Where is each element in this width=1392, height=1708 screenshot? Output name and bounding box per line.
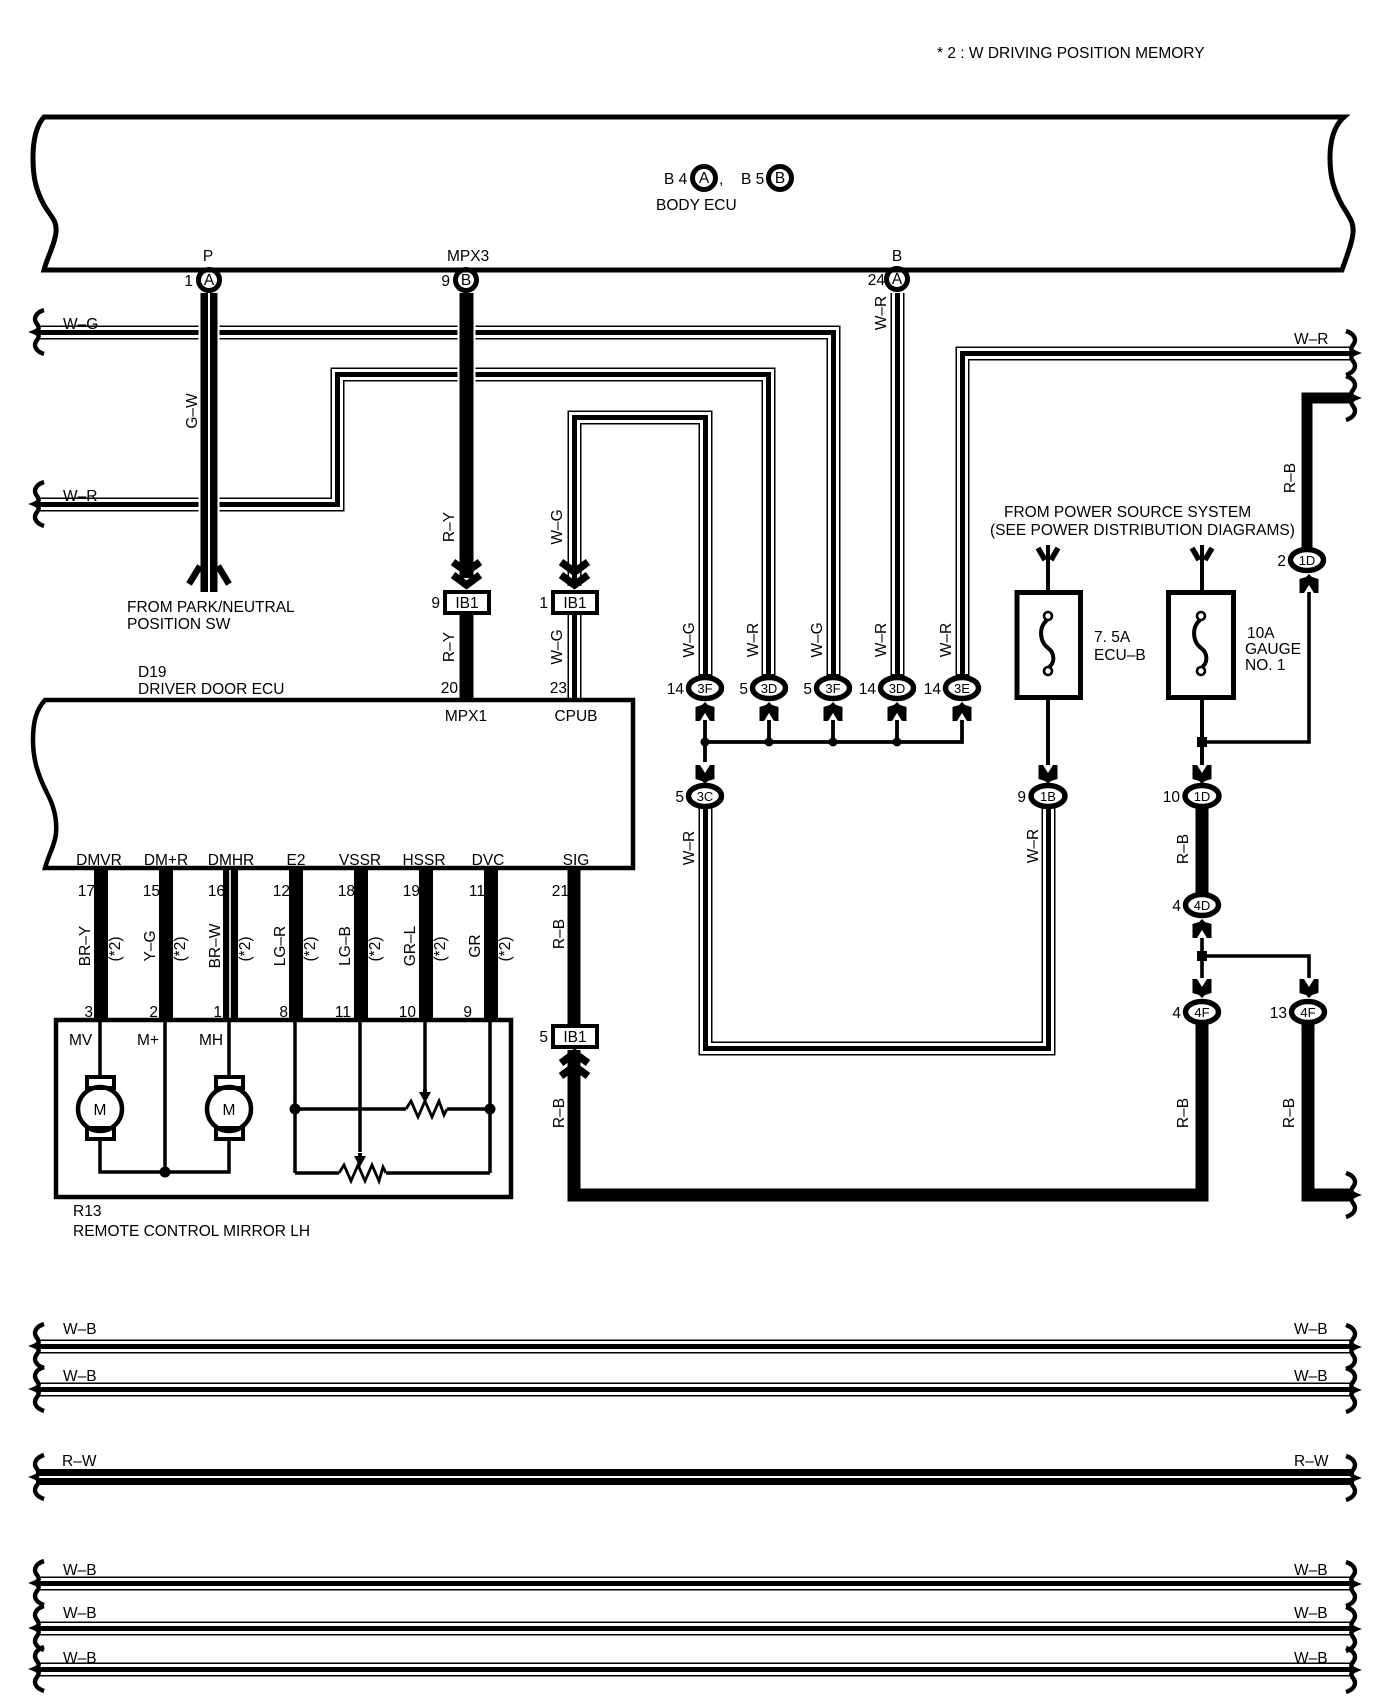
svg-text:3D: 3D: [761, 681, 778, 696]
svg-text:W–G: W–G: [549, 509, 566, 544]
arrow up into 3F(14): [696, 702, 715, 721]
wire W-B ground 2: [36, 1383, 1354, 1397]
svg-text:R–B: R–B: [1282, 463, 1299, 493]
svg-text:10: 10: [1163, 789, 1181, 806]
svg-text:DMHR: DMHR: [208, 852, 255, 869]
svg-text:IB1: IB1: [563, 1029, 586, 1046]
wire mirror pin1 to motor MH: [227, 1022, 231, 1079]
torn-edge brace W-R right: [1346, 331, 1356, 375]
svg-text:1D: 1D: [1194, 789, 1211, 804]
svg-text:3E: 3E: [954, 681, 970, 696]
svg-text:3F: 3F: [825, 681, 840, 696]
svg-text:R–W: R–W: [62, 1453, 97, 1470]
svg-text:W–B: W–B: [1294, 1605, 1328, 1622]
svg-text:1: 1: [184, 273, 193, 290]
svg-text:HSSR: HSSR: [402, 852, 445, 869]
wire R-Y from IB1 to driver door ECU pin 20: [460, 615, 474, 700]
wire R-Y MPX3 from connector B(9) to junction IB1: [458, 293, 476, 578]
svg-text:(*2): (*2): [302, 937, 319, 962]
connector 14 (3E): [946, 678, 979, 699]
potentiometer bottom zigzag: [339, 1165, 386, 1181]
svg-text:W–G: W–G: [549, 629, 566, 664]
wire W-R from left edge up and over to connector 3D(5): [36, 375, 769, 677]
junction dot: [160, 1167, 171, 1178]
svg-text:B 4: B 4: [664, 171, 688, 188]
svg-text:W–R: W–R: [938, 623, 955, 657]
torn-edge brace R-B right: [1346, 376, 1356, 420]
svg-text:,: ,: [719, 171, 723, 188]
svg-text:GR–L: GR–L: [402, 925, 419, 966]
svg-text:W–B: W–B: [1294, 1650, 1328, 1667]
svg-text:W–R: W–R: [873, 623, 890, 657]
svg-text:17: 17: [78, 883, 95, 900]
wire R-B pin21 (SIG) to IB1 pin5: [568, 870, 581, 1024]
svg-text:B 5: B 5: [741, 171, 764, 188]
arrow up into 3D(5): [760, 702, 779, 721]
svg-text:14: 14: [924, 681, 942, 698]
svg-text:Y–G: Y–G: [142, 930, 159, 961]
wire motor MV to common: [100, 1139, 229, 1172]
svg-text:REMOTE CONTROL MIRROR LH: REMOTE CONTROL MIRROR LH: [73, 1223, 310, 1240]
wire mirror pin11 wiper: [358, 1022, 362, 1152]
svg-text:7. 5A: 7. 5A: [1094, 629, 1131, 646]
torn-edge brace R-B bottom right: [1346, 1173, 1356, 1217]
svg-text:5: 5: [739, 681, 748, 698]
svg-text:(SEE POWER DISTRIBUTION DIAGRA: (SEE POWER DISTRIBUTION DIAGRAMS): [990, 522, 1295, 539]
svg-text:NO. 1: NO. 1: [1245, 657, 1285, 674]
svg-text:IB1: IB1: [563, 595, 586, 612]
svg-text:G–W: G–W: [184, 393, 201, 429]
svg-text:(*2): (*2): [432, 937, 449, 962]
svg-text:DRIVER DOOR ECU: DRIVER DOOR ECU: [138, 681, 284, 698]
wire LG-B pin18 to mirror pin11: [354, 870, 368, 1022]
arrow down into 4F(4): [1193, 979, 1212, 998]
svg-text:W–R: W–R: [1294, 331, 1328, 348]
svg-text:W–G: W–G: [681, 622, 698, 657]
connector 4 (4D): [1186, 895, 1219, 916]
connector 1 (A) on body ECU pin P: [199, 270, 220, 291]
svg-text:14: 14: [667, 681, 685, 698]
svg-text:(*2): (*2): [237, 937, 254, 962]
wire W-R from right edge to connector 3E(14): [963, 354, 1353, 677]
svg-text:W–B: W–B: [63, 1562, 97, 1579]
svg-text:W–R: W–R: [873, 296, 890, 330]
svg-text:9: 9: [441, 273, 450, 290]
wire from 4D down with branch to both 4F connectors: [1202, 938, 1309, 978]
connector 14 (3D): [881, 678, 914, 699]
connector 5 (3D): [753, 678, 786, 699]
junction dot: [1197, 737, 1207, 747]
svg-text:5: 5: [803, 681, 812, 698]
svg-text:MV: MV: [69, 1032, 93, 1049]
arrow down into 1B(9): [1039, 765, 1058, 784]
svg-text:MH: MH: [199, 1032, 223, 1049]
wire R-W: [36, 1469, 1354, 1485]
connector 2 (1D): [1291, 550, 1324, 571]
svg-text:4F: 4F: [1194, 1005, 1209, 1020]
svg-text:LG–B: LG–B: [337, 926, 354, 966]
junction dot: [485, 1104, 496, 1115]
svg-text:19: 19: [403, 883, 420, 900]
connector 9 (B) on body ECU pin MPX3: [456, 270, 477, 291]
svg-text:W–R: W–R: [63, 488, 97, 505]
connector 13 (4F): [1292, 1002, 1325, 1023]
svg-text:(*2): (*2): [107, 937, 124, 962]
svg-text:W–B: W–B: [1294, 1562, 1328, 1579]
svg-text:M+: M+: [137, 1032, 159, 1049]
connector 5 (3F): [817, 678, 850, 699]
svg-text:LG–R: LG–R: [272, 926, 289, 967]
fuse 10A GAUGE NO.1: [1169, 593, 1234, 698]
svg-text:W–R: W–R: [681, 831, 698, 865]
svg-text:14: 14: [859, 681, 877, 698]
feed stub arrow into fuse ECU-B: [1046, 545, 1050, 590]
arrow up into 3E(14): [953, 702, 972, 721]
wire R-B from right edge down to connector 1D(2): [1307, 398, 1352, 549]
arrow up into 3F(5): [824, 702, 843, 721]
wire mirror pin3 to motor MV: [98, 1022, 102, 1079]
svg-text:BR–Y: BR–Y: [77, 926, 94, 967]
svg-text:IB1: IB1: [455, 595, 478, 612]
svg-text:18: 18: [338, 883, 355, 900]
svg-text:23: 23: [550, 680, 567, 697]
fuse 7.5A ECU-B: [1017, 593, 1081, 698]
arrow up into 1D(2): [1300, 574, 1319, 593]
wire GR pin11 to mirror pin9: [484, 870, 498, 1022]
svg-text:W–R: W–R: [1025, 829, 1042, 863]
wire R-B from 4F(4) down, across to IB1(5): [574, 1024, 1202, 1195]
wire R-B from 4F(13) down to right edge: [1308, 1024, 1352, 1195]
svg-text:W–R: W–R: [745, 623, 762, 657]
svg-text:A: A: [892, 271, 903, 288]
svg-text:R–W: R–W: [1294, 1453, 1329, 1470]
torn-edge brace W-G left: [34, 310, 44, 354]
svg-text:1B: 1B: [1040, 789, 1056, 804]
junction dot: [829, 738, 838, 747]
connector B5 (B): [769, 167, 792, 190]
svg-text:R–Y: R–Y: [441, 632, 458, 662]
arrow down onto top potentiometer: [419, 1089, 431, 1103]
svg-text:MPX3: MPX3: [447, 248, 489, 265]
svg-text:24: 24: [868, 272, 886, 289]
wire W-G from left edge to connector 3F(5): [36, 333, 834, 677]
junction block IB1 pin 9: [445, 592, 489, 613]
arrow down onto bottom potentiometer: [354, 1153, 366, 1167]
junction dot: [893, 738, 902, 747]
svg-text:3F: 3F: [697, 681, 712, 696]
svg-text:(*2): (*2): [367, 937, 384, 962]
arrow up into 3D(14): [888, 702, 907, 721]
junction block IB1 pin 1: [553, 592, 597, 613]
wire mirror pin10 wiper: [423, 1022, 427, 1089]
connector 4 (4F): [1186, 1002, 1219, 1023]
junction dot: [701, 738, 710, 747]
torn-edge brace W-R left: [34, 482, 44, 526]
wire W-B ground 1: [36, 1340, 1354, 1354]
svg-text:W–B: W–B: [63, 1650, 97, 1667]
potentiometer top zigzag: [406, 1101, 447, 1117]
svg-text:R–B: R–B: [551, 919, 568, 949]
arrow (double chevron) into IB1 pin 9: [453, 562, 480, 572]
junction dot: [290, 1104, 301, 1115]
wire Y-G pin15 to mirror pin2: [159, 870, 173, 1022]
svg-text:1: 1: [539, 595, 548, 612]
svg-text:BR–W: BR–W: [207, 923, 224, 968]
svg-text:4D: 4D: [1194, 898, 1211, 913]
svg-text:R–B: R–B: [551, 1098, 568, 1128]
wire mirror pin8 left side of sensor: [293, 1022, 297, 1173]
wire LG-R pin12 to mirror pin8: [289, 870, 303, 1022]
svg-text:DMVR: DMVR: [76, 852, 122, 869]
svg-text:GR: GR: [467, 934, 484, 957]
svg-text:POSITION SW: POSITION SW: [127, 616, 231, 633]
wire R-B from 1D(10) to 4D(4): [1196, 808, 1209, 893]
svg-text:9: 9: [1017, 789, 1026, 806]
svg-text:VSSR: VSSR: [339, 852, 381, 869]
svg-text:MPX1: MPX1: [445, 708, 487, 725]
svg-text:12: 12: [273, 883, 290, 900]
svg-text:B: B: [775, 170, 785, 187]
wire G-W from connector A(1) down to park/neutral position sw: [199, 293, 220, 587]
sensor bottom line with potentiometer: [295, 1171, 490, 1175]
svg-text:BODY ECU: BODY ECU: [656, 197, 737, 214]
svg-text:1D: 1D: [1299, 553, 1316, 568]
wire W-B ground 5: [36, 1663, 1354, 1677]
ECU D19: DRIVER DOOR ECU box (torn left edge): [33, 700, 633, 868]
arrow (double chevron) into IB1 pin 1: [561, 562, 588, 572]
wire BR-Y pin17 to mirror pin3: [94, 870, 108, 1022]
svg-text:CPUB: CPUB: [554, 708, 597, 725]
svg-text:D19: D19: [138, 664, 166, 681]
ECU B: BODY ECU box (partial, torn edges): [33, 117, 1353, 270]
wire W-R from connector A(24) down to 3D(14): [891, 293, 905, 676]
svg-text:R13: R13: [73, 1203, 101, 1220]
arrow (double chevron) up into IB1 pin 5: [561, 1053, 588, 1063]
feed stub arrow into fuse GAUGE: [1200, 545, 1204, 590]
svg-text:DM+R: DM+R: [144, 852, 188, 869]
svg-text:M: M: [223, 1102, 236, 1119]
svg-text:B: B: [461, 272, 471, 289]
sensor top line with potentiometer: [295, 1107, 490, 1111]
wire GR-L pin19 to mirror pin10: [419, 870, 433, 1022]
svg-text:B: B: [892, 248, 902, 265]
svg-text:5: 5: [675, 789, 684, 806]
svg-text:R–B: R–B: [1175, 834, 1192, 864]
junction block IB1 pin 5: [553, 1026, 597, 1047]
svg-text:A: A: [204, 272, 215, 289]
connector 9 (1B): [1031, 786, 1065, 807]
svg-text:W–B: W–B: [1294, 1368, 1328, 1385]
arrow down into 1D(10): [1193, 765, 1212, 784]
svg-text:A: A: [699, 170, 710, 187]
svg-text:DVC: DVC: [472, 852, 505, 869]
svg-text:M: M: [94, 1102, 107, 1119]
svg-text:FROM PARK/NEUTRAL: FROM PARK/NEUTRAL: [127, 599, 295, 616]
svg-text:* 2 : W DRIVING POSITION MEMOR: * 2 : W DRIVING POSITION MEMORY: [937, 45, 1205, 62]
svg-text:4: 4: [1172, 1005, 1181, 1022]
svg-text:(*2): (*2): [172, 937, 189, 962]
svg-text:E2: E2: [287, 852, 306, 869]
connector 5 (3C): [689, 786, 722, 807]
arrow down into 3C(5): [696, 765, 715, 784]
wire from fuse ECU-B to 1B(9): [1046, 700, 1050, 765]
wire W-R U-loop from 3C(5) to 1B(9): [706, 808, 1049, 1049]
svg-text:ECU–B: ECU–B: [1094, 647, 1146, 664]
bus line joining 3F/3D/3F/3D/3E connectors: [705, 720, 962, 762]
svg-text:21: 21: [552, 883, 569, 900]
svg-text:P: P: [203, 248, 213, 265]
component R13: REMOTE CONTROL MIRROR LH box: [56, 1020, 511, 1197]
svg-text:3C: 3C: [697, 789, 714, 804]
svg-text:W–B: W–B: [63, 1368, 97, 1385]
svg-text:GAUGE: GAUGE: [1245, 641, 1301, 658]
svg-text:R–B: R–B: [1281, 1098, 1298, 1128]
wire W-G from IB1 to driver door ECU pin 23 (CPUB): [568, 615, 582, 700]
svg-text:W–B: W–B: [63, 1605, 97, 1622]
junction dot: [765, 738, 774, 747]
svg-text:2: 2: [1277, 553, 1286, 570]
svg-text:W–G: W–G: [809, 622, 826, 657]
svg-text:R–B: R–B: [1175, 1098, 1192, 1128]
connector 14 (3F): [689, 678, 722, 699]
connector 10 (1D): [1185, 786, 1219, 807]
svg-text:9: 9: [431, 595, 440, 612]
arrow down into 4F(13): [1300, 979, 1319, 998]
wire BR-W pin16 to mirror pin1: [223, 870, 238, 1022]
svg-text:16: 16: [208, 883, 225, 900]
svg-text:FROM POWER SOURCE SYSTEM: FROM POWER SOURCE SYSTEM: [1004, 504, 1251, 521]
connector 24 (A) on body ECU pin B: [887, 269, 908, 290]
svg-text:20: 20: [441, 680, 459, 697]
wire from fuse GAUGE down to 1D(10) with branch to 1D(2): [1200, 700, 1204, 765]
svg-text:11: 11: [469, 883, 485, 900]
wire W-B ground 3: [36, 1577, 1354, 1591]
svg-text:4F: 4F: [1300, 1005, 1315, 1020]
arrow barbs on G-W wire end: [189, 566, 200, 584]
motor MV: [78, 1087, 122, 1131]
svg-text:10A: 10A: [1247, 625, 1275, 642]
svg-text:W–B: W–B: [1294, 1321, 1328, 1338]
svg-text:13: 13: [1270, 1005, 1287, 1022]
wire mirror pin9 right side of sensor: [488, 1022, 492, 1173]
junction dot: [1197, 951, 1207, 961]
svg-text:R–Y: R–Y: [441, 512, 458, 542]
svg-text:W–G: W–G: [63, 316, 98, 333]
arrow up into 4D(4): [1193, 919, 1212, 938]
svg-text:4: 4: [1172, 898, 1181, 915]
wire W-B ground 4: [36, 1622, 1354, 1636]
wire mirror pin2 common: [163, 1022, 167, 1172]
wire W-G loop from IB1 pin1 over to connector 3F(14): [575, 418, 706, 677]
svg-text:SIG: SIG: [563, 852, 590, 869]
svg-text:W–B: W–B: [63, 1321, 97, 1338]
svg-text:(*2): (*2): [497, 937, 514, 962]
svg-text:5: 5: [539, 1029, 548, 1046]
svg-text:15: 15: [143, 883, 160, 900]
svg-text:3D: 3D: [889, 681, 906, 696]
connector B4 (A): [693, 167, 716, 190]
motor MH: [207, 1087, 251, 1131]
